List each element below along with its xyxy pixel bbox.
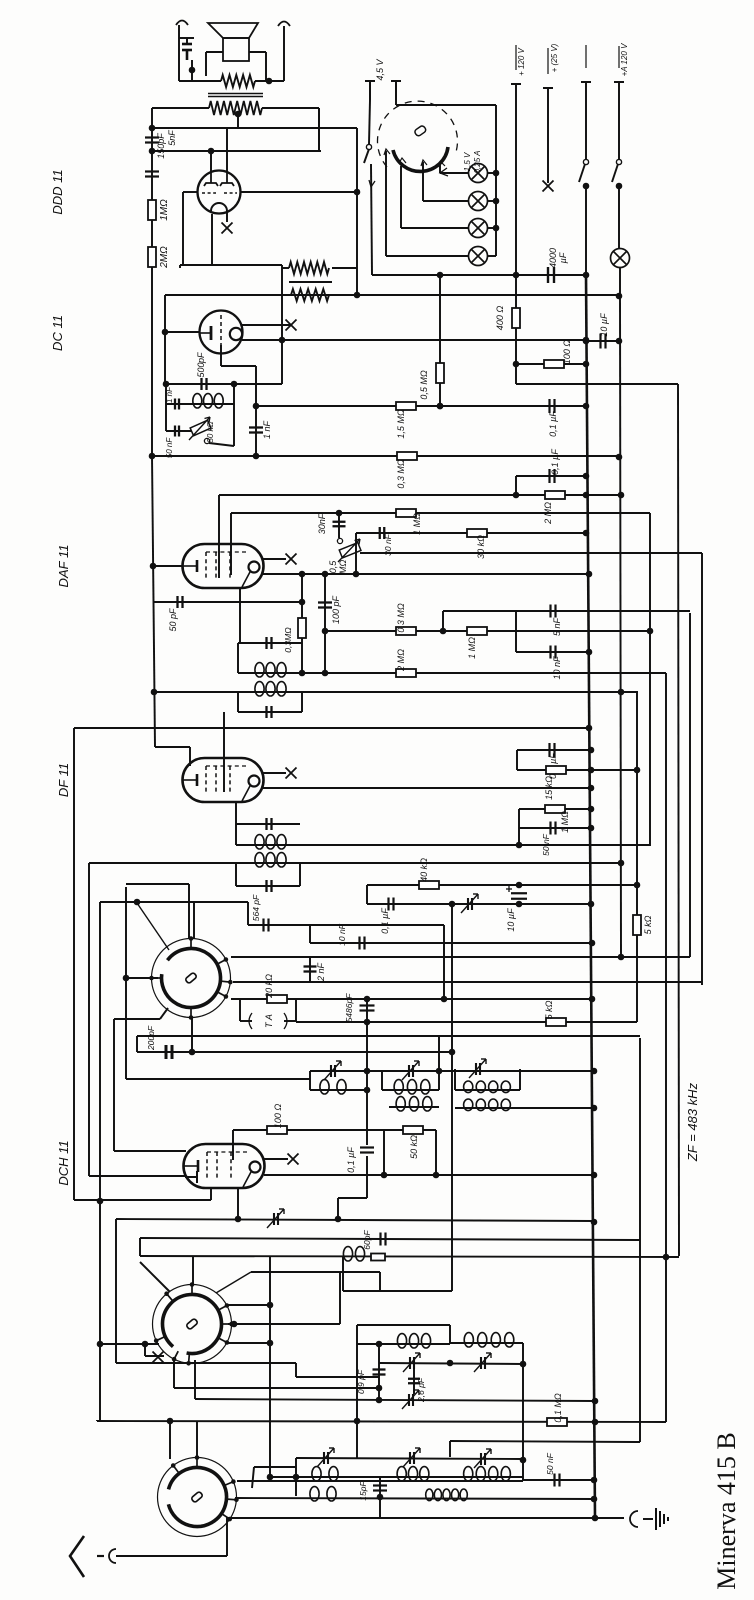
- power rail R7: [678, 384, 679, 1256]
- svg-text:10 µF: 10 µF: [599, 313, 609, 337]
- wire x325 vert: [324, 574, 326, 673]
- svg-text:1,5 V: 1,5 V: [463, 152, 472, 171]
- x-mark SW2: [153, 1352, 164, 1363]
- junction y1175 R1: [591, 1172, 598, 1179]
- junction R1 y186: [583, 183, 590, 190]
- wire y1399 line: [195, 1399, 595, 1401]
- capacitor 0.1uF c: [550, 743, 555, 757]
- inductor osc L2: [310, 1487, 336, 1501]
- wire lamp3 left: [401, 227, 469, 229]
- wire x165 vert: [164, 295, 166, 384]
- x-mark DCH11: [288, 1154, 299, 1165]
- junction y602 x302: [299, 599, 306, 606]
- resistor 15k-ohm: [546, 766, 566, 774]
- wire T2 sec right vert: [301, 692, 303, 712]
- wire x194 to switch: [193, 902, 195, 939]
- wire DF11 grid riser: [223, 712, 225, 792]
- wire 4.5V right drop: [395, 100, 397, 105]
- resistor hum-bucking: [221, 75, 255, 87]
- loudspeaker LS1 cone: [208, 23, 258, 38]
- junction T2 sec bus: [151, 689, 158, 696]
- wire speaker right lead: [249, 51, 266, 53]
- drum contact arrows: [384, 149, 445, 167]
- wire T2 sec line: [155, 691, 638, 693]
- wire x523 vert: [522, 1343, 524, 1480]
- inductor T3 secondary: [255, 853, 286, 867]
- capacitor T3 top: [267, 818, 272, 830]
- svg-text:4,5 V: 4,5 V: [375, 58, 385, 80]
- junction y295 R2: [616, 293, 623, 300]
- tube DDD11 cathode arc: [211, 203, 227, 211]
- wire R1 upper: [585, 82, 587, 160]
- inductor G2b: [396, 1097, 432, 1111]
- junction x270 y1343: [267, 1340, 274, 1347]
- band switch SW3: [158, 1455, 239, 1536]
- wire SW3 top riser a: [169, 1421, 171, 1459]
- svg-text:30 nF: 30 nF: [383, 533, 393, 556]
- svg-text:1MΩ: 1MΩ: [159, 199, 170, 221]
- wire SW3 right line: [237, 1480, 523, 1482]
- wire x116 drop: [115, 1219, 117, 1363]
- variable capacitor padder: [267, 1209, 284, 1228]
- wire y553 line: [360, 552, 702, 554]
- junction bus DAF cathode: [150, 563, 157, 570]
- variable capacitor G3: [469, 1059, 486, 1078]
- variable capacitor osc main: [402, 1390, 419, 1409]
- terminal 25V: [543, 87, 553, 89]
- svg-text:100 Ω: 100 Ω: [273, 1104, 283, 1129]
- capacitor 100pF: [318, 603, 332, 608]
- x-mark DDD11 cathode: [222, 223, 233, 234]
- inductor osc top: [343, 1247, 364, 1261]
- wire y999 from SW1: [231, 998, 592, 1000]
- wire y885 line: [367, 884, 637, 886]
- transformer T-OUT primary winding: [209, 101, 262, 115]
- trimmer 50k-ohm: [189, 417, 211, 440]
- resistor 1M-ohm b: [396, 509, 416, 517]
- svg-text:20 kΩ: 20 kΩ: [264, 974, 274, 999]
- svg-text:2 MΩ: 2 MΩ: [396, 649, 406, 672]
- wire T3 sec left vert: [235, 863, 237, 886]
- junction 15pF bottom: [377, 1494, 384, 1501]
- wire y513 line: [231, 512, 650, 514]
- wire y1458 line: [296, 1458, 523, 1459]
- wire left post down: [178, 25, 180, 81]
- tube DCH11 second cathode: [185, 1171, 197, 1183]
- inductor G3: [464, 1081, 511, 1093]
- wire x452 long vert: [451, 904, 453, 1291]
- junction y885 R3: [634, 882, 641, 889]
- wire OT right lead: [262, 107, 319, 109]
- wire 15pF vert: [379, 1477, 381, 1518]
- wire x97 corner: [96, 1420, 98, 1421]
- capacitor 2.6pF: [408, 1379, 420, 1384]
- svg-text:+ (25 V): + (25 V): [550, 43, 559, 72]
- wire x100 vert: [99, 902, 101, 1420]
- capacitor 0.1uF dch: [360, 1148, 374, 1153]
- wire y456 line: [152, 455, 619, 457]
- variable capacitor osc R: [474, 1449, 491, 1468]
- wire lamp1 left drop: [439, 163, 441, 173]
- junction x325 y631: [322, 628, 329, 635]
- wire magnet stem: [186, 38, 188, 44]
- junction x367 y1071: [364, 1068, 371, 1075]
- wire coil line T: [310, 1070, 594, 1072]
- dial drum inner arc: [393, 147, 448, 171]
- junction y406 R1: [583, 403, 590, 410]
- capacitor T2 bottom: [267, 706, 272, 718]
- resistor 100-ohm: [544, 360, 564, 368]
- wire 4.5V left drop: [369, 100, 370, 144]
- wire DDD11 anode line: [240, 191, 357, 193]
- inductor T2 primary: [255, 663, 286, 677]
- wire x166 vert: [165, 384, 167, 431]
- wire T3 cap line: [236, 823, 300, 825]
- wire y268 lead left: [282, 267, 289, 269]
- junction R2 y186: [616, 183, 623, 190]
- wire x367 coil vert: [366, 1022, 368, 1145]
- switch S1 arrowhead: [369, 180, 375, 187]
- junction y1480 R1: [591, 1477, 598, 1484]
- wire lamp3 right: [487, 227, 496, 229]
- wire T2 sec cap line: [238, 711, 302, 713]
- svg-text:+ 120 V: + 120 V: [517, 47, 526, 75]
- junction OT centre tap: [235, 111, 242, 118]
- svg-text:Minerva 415 B: Minerva 415 B: [712, 1432, 741, 1589]
- wire y495 line: [219, 494, 621, 496]
- band switch SW1: [149, 936, 232, 1020]
- junction y574 x325: [322, 571, 329, 578]
- resistor 0.3M-ohm a: [397, 452, 417, 460]
- wire G2 frame right: [438, 1036, 440, 1090]
- svg-text:5 kΩ: 5 kΩ: [643, 915, 653, 934]
- junction x436 y1175: [433, 1172, 440, 1179]
- junction y999 x367: [364, 996, 371, 1003]
- svg-text:0,3 MΩ: 0,3 MΩ: [396, 459, 406, 489]
- wire coil line M g1: [310, 1089, 367, 1091]
- svg-text:DF 11: DF 11: [56, 763, 71, 797]
- wire R2 to lamp: [618, 185, 620, 249]
- wire T3 sec right vert: [299, 863, 301, 886]
- terminal 120V: [511, 83, 521, 85]
- wire DCH anode line: [264, 1174, 594, 1176]
- plus sign 10uF: [506, 886, 512, 892]
- wire coil line M g2: [382, 1089, 439, 1091]
- wire y364 line: [516, 363, 586, 365]
- wire y1305 line: [226, 1304, 270, 1306]
- resistor 30k-ohm: [467, 529, 487, 537]
- wire y1344 coilA: [357, 1343, 450, 1345]
- power rail R5: [649, 513, 651, 846]
- earth ground symbol: [656, 1508, 668, 1530]
- capacitor 5nF b: [551, 605, 556, 618]
- wire 30nF drop: [338, 513, 340, 538]
- resistor 1.5M-ohm: [396, 402, 416, 410]
- svg-text:MΩ: MΩ: [338, 560, 348, 574]
- capacitor 5nF in bus: [145, 172, 159, 177]
- junction y728 R1: [586, 725, 593, 732]
- tube DC11 grid dashes: [220, 315, 222, 345]
- junction y406 x440: [437, 403, 444, 410]
- wire y982 from SW1: [233, 981, 702, 983]
- capacitor 564pF: [264, 919, 269, 932]
- wire TA left vert: [239, 999, 241, 1021]
- junction y750 R1: [588, 747, 595, 754]
- wire x367 elbow: [338, 1197, 367, 1199]
- wire antenna lead: [116, 1555, 227, 1557]
- junction y828 R1: [588, 825, 595, 832]
- wire y809 line: [519, 808, 591, 810]
- wire lamp2 left: [423, 200, 469, 202]
- wire x343 coil drop: [342, 1257, 344, 1291]
- variable capacitor osc 1: [403, 1353, 420, 1372]
- TA pickup bracket: [249, 1013, 287, 1029]
- wire DC11 cathode drop: [220, 353, 222, 366]
- capacitor 0.1uF d: [389, 898, 394, 911]
- junction SW2 left mid: [142, 1341, 149, 1348]
- tube DDD11 envelope: [198, 171, 241, 214]
- wire y1363 varcap line: [379, 1363, 523, 1364]
- wire trimmer to x234: [209, 443, 234, 446]
- junction y341 R1: [583, 338, 590, 345]
- junction y885 x519: [516, 882, 523, 889]
- svg-text:1 MΩ: 1 MΩ: [467, 637, 477, 659]
- wire DF11 cath elbow v: [189, 747, 191, 766]
- wire DC11 out2: [242, 339, 282, 341]
- lamp La3: [469, 219, 488, 238]
- wire SW2 left line: [100, 1343, 159, 1345]
- junction y275 R1: [583, 272, 590, 279]
- wire DDD11 grid bottom drop: [211, 214, 213, 265]
- trimmer contact circle: [204, 438, 209, 443]
- wire x516 vert3: [515, 611, 517, 652]
- wire DDD11 left tap: [183, 191, 198, 193]
- terminal +A: [614, 81, 624, 83]
- field coil magnet bars: [182, 44, 192, 60]
- switch S1 contact: [366, 144, 371, 149]
- wire x254 vert: [252, 1467, 254, 1488]
- wire speaker bottom bus: [179, 80, 221, 82]
- power rail R1 main: [586, 275, 595, 1518]
- wire lamp4 right: [487, 255, 496, 257]
- junction magnet bottom: [189, 67, 196, 74]
- wire right post down: [283, 26, 285, 81]
- capacitor 1nF osc: [175, 399, 179, 410]
- svg-text:30 kΩ: 30 kΩ: [476, 535, 486, 559]
- wire R1 below switch: [585, 185, 587, 275]
- variable capacitor G1: [324, 1061, 341, 1080]
- variable capacitor osc L: [317, 1448, 334, 1467]
- resistor osc small: [371, 1254, 385, 1261]
- junction y902 x137: [134, 899, 141, 906]
- junction x523 y1460: [520, 1457, 527, 1464]
- wire TA right vert: [295, 999, 297, 1021]
- resistor 1M-ohm c: [467, 627, 487, 635]
- power rail R8: [689, 613, 691, 957]
- capacitor 4000uF: [548, 267, 554, 283]
- resistor 1M-ohm: [148, 200, 156, 220]
- wire R1 top dash: [585, 45, 587, 68]
- wire lamp4 left: [386, 255, 469, 257]
- junction y1388 x379: [376, 1385, 383, 1392]
- wire DF11 xlead: [263, 772, 286, 774]
- resistor 2M-ohm c: [396, 669, 416, 677]
- wire x340 up: [339, 1272, 341, 1324]
- wire y533 line: [356, 532, 586, 534]
- potentiometer 0.5M-ohm: [338, 539, 361, 562]
- lamp La1: [469, 164, 488, 183]
- arrow lamp1 left: [440, 168, 448, 176]
- wire y904 line: [367, 903, 591, 905]
- svg-text:0,5 MΩ: 0,5 MΩ: [419, 370, 429, 400]
- wire lamp1 right: [487, 172, 496, 174]
- tube DAF11: [183, 544, 264, 588]
- wire x140 corner: [139, 1238, 141, 1256]
- wire x367 vert: [366, 885, 368, 904]
- svg-text:50 nF: 50 nF: [165, 437, 174, 459]
- junction y533 R1: [583, 530, 590, 537]
- junction y809 R1: [588, 806, 595, 813]
- svg-text:0,5: 0,5: [328, 560, 338, 574]
- switch S2 contact: [583, 159, 588, 164]
- junction bottom bus R1: [592, 1515, 599, 1522]
- wire x256 vert: [255, 366, 257, 456]
- capacitor 10uF: [601, 334, 606, 349]
- junction SW1 left: [123, 975, 130, 982]
- wire DF11 anode line: [263, 787, 591, 789]
- junction x384 y1175: [381, 1172, 388, 1179]
- wire y673 line: [238, 672, 666, 674]
- svg-text:T A: T A: [264, 1014, 274, 1028]
- junction y275 x516: [513, 272, 520, 279]
- lamp La2: [469, 192, 488, 211]
- svg-text:100 pF: 100 pF: [331, 595, 341, 624]
- wire x296 jog: [295, 1363, 297, 1377]
- wire x516 vert2: [515, 476, 517, 495]
- lamp dial La5: [611, 249, 630, 268]
- capacitor 10nF b: [551, 646, 556, 659]
- power rail R6: [665, 673, 667, 1422]
- variable capacitor osc M: [403, 1448, 420, 1467]
- wire y1219 line: [116, 1219, 594, 1221]
- junction y652 R1: [586, 649, 593, 656]
- wire y1022 line: [296, 1021, 637, 1023]
- wire coil line M g3: [455, 1089, 520, 1091]
- resistor 400-ohm: [512, 308, 520, 328]
- svg-text:0,1 µF: 0,1 µF: [380, 908, 390, 934]
- wire antenna riser: [226, 1517, 228, 1556]
- wire x180 vert: [179, 265, 181, 268]
- junction y384 x166: [163, 381, 170, 388]
- wire DDD11 grid1 riser: [210, 151, 212, 173]
- wire G1 left vert: [309, 1071, 311, 1090]
- wire magnet top: [179, 37, 194, 39]
- wire y1036 line: [137, 1035, 640, 1037]
- wire 2.6pF stub: [413, 1363, 415, 1394]
- capacitor 10uF electrolytic: [511, 893, 527, 899]
- wire SW1 left contact: [126, 977, 158, 979]
- junction x302 y673: [299, 670, 306, 677]
- wire y863 line: [89, 862, 621, 864]
- inductor G2: [394, 1080, 430, 1094]
- junction y904 x519: [516, 901, 523, 908]
- svg-text:4000: 4000: [548, 248, 558, 268]
- band switch SW2: [150, 1282, 233, 1365]
- svg-text:0,3MΩ: 0,3MΩ: [283, 627, 293, 653]
- wire DAF11 cathode left: [154, 565, 183, 567]
- wire x338 drop: [337, 1198, 339, 1219]
- junction y692 R2: [618, 689, 625, 696]
- svg-text:10 µF: 10 µF: [506, 908, 516, 932]
- svg-text:50 kΩ: 50 kΩ: [409, 1135, 419, 1159]
- wire 25V rail: [547, 88, 549, 183]
- wire 120V rail dash: [515, 45, 517, 70]
- wire 1nF drop: [256, 405, 350, 407]
- resistor 100-ohm b: [267, 1126, 287, 1134]
- svg-text:5 nF: 5 nF: [552, 617, 562, 636]
- wire y340 line: [282, 339, 586, 341]
- wire left bus x153: [152, 456, 155, 747]
- wire y1363 line: [116, 1362, 296, 1364]
- svg-text:15pF: 15pF: [358, 1481, 368, 1501]
- svg-text:5nF: 5nF: [167, 130, 177, 146]
- junction grid1 on 151 line: [208, 148, 215, 155]
- wire G3 frame left: [454, 1069, 456, 1090]
- wire y1272 line: [251, 1271, 380, 1273]
- tube DDD11 grid dashes: [202, 192, 237, 194]
- wire y384 line right: [516, 383, 678, 385]
- wire SW2 diag in: [140, 1262, 170, 1292]
- wire y476 line: [516, 475, 586, 477]
- wire battery stub R: [395, 81, 397, 100]
- wire left bus top segment: [151, 108, 153, 128]
- wire x367 below cap: [366, 1156, 368, 1198]
- wire drum link drop: [495, 105, 497, 173]
- wire x211 riser: [210, 1188, 212, 1200]
- junction x282 y340: [279, 337, 286, 344]
- svg-text:150pF: 150pF: [156, 133, 166, 159]
- wire coilB line: [450, 1342, 523, 1344]
- inductor osc L: [312, 1467, 338, 1481]
- wire DCH xlead: [264, 1158, 288, 1160]
- junction y384 x234: [231, 381, 238, 388]
- junction y1477 x296: [293, 1474, 300, 1481]
- wire y943 line: [310, 942, 592, 944]
- wire speaker bottom bus right: [255, 80, 284, 82]
- wire SW2 bot drop b: [194, 1360, 196, 1399]
- wire x450 frame: [449, 1325, 451, 1344]
- wire left bus x152: [151, 128, 153, 456]
- junction x238 y1219: [235, 1216, 242, 1223]
- tube DC11 envelope: [200, 311, 243, 354]
- wire speaker right lead drop: [265, 52, 267, 81]
- resistor 0.5M-ohm: [436, 363, 444, 383]
- wire G2 frame left: [381, 1071, 383, 1090]
- wire G3 frame right: [519, 1069, 521, 1090]
- junction y574 R1: [586, 571, 593, 578]
- junction y456 left: [149, 453, 156, 460]
- wire ground lead: [643, 1518, 653, 1520]
- wire x270 long vert: [269, 1256, 271, 1477]
- resistor 5k-ohm b: [546, 1018, 566, 1026]
- junction y1052 x192: [189, 1049, 196, 1056]
- wire y602 line: [154, 601, 302, 603]
- junction x325 y673: [322, 670, 329, 677]
- lamp La4: [469, 247, 488, 266]
- wire y611 line: [443, 610, 690, 612]
- wire y406 line: [256, 405, 586, 407]
- variable capacitor AVC: [461, 894, 478, 913]
